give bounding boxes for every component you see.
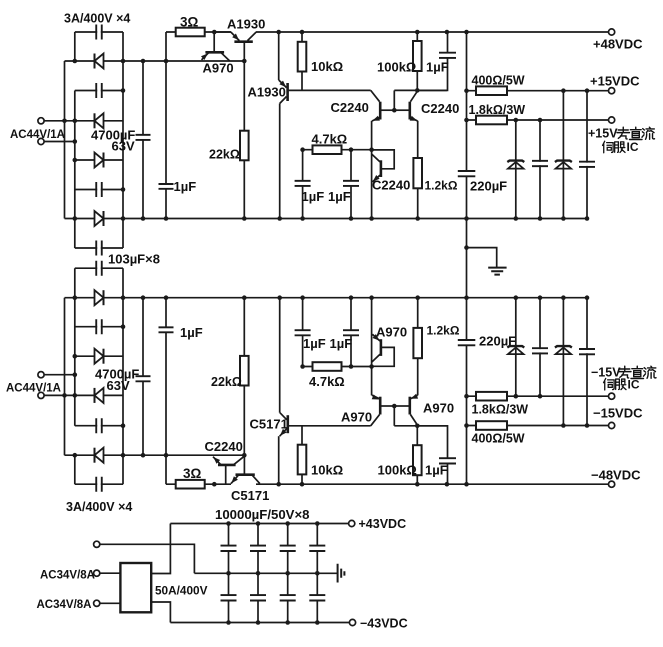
junction — [276, 30, 281, 35]
svg-text:63V: 63V — [112, 139, 135, 154]
wire base bus vertical (lower) — [393, 406, 395, 426]
junction (lower) — [464, 482, 469, 487]
junction — [121, 59, 126, 64]
wire AC34V b — [100, 602, 120, 604]
junction — [121, 88, 126, 93]
svg-text:C5171: C5171 — [250, 417, 288, 432]
wire diode row 4 (lower) — [65, 454, 245, 456]
junction (lower) — [300, 482, 305, 487]
junction — [538, 216, 543, 221]
svg-text:1µF: 1µF — [328, 189, 351, 204]
svg-text:+43VDC: +43VDC — [359, 517, 407, 531]
junction (lower) — [392, 404, 397, 409]
wire inter-rail link — [466, 219, 468, 298]
svg-text:220µF: 220µF — [479, 334, 516, 349]
wire zener-1 column — [515, 120, 517, 219]
svg-text:50A/400V: 50A/400V — [155, 584, 208, 598]
wire 1uF-b column — [350, 150, 352, 219]
capacitor C filter-2 — [579, 162, 595, 167]
svg-text:−48VDC: −48VDC — [591, 468, 641, 483]
wire AC input 1 (lower) — [44, 374, 75, 376]
transistor Q10 A970 (PNP pair left, lower) — [371, 395, 395, 426]
wire zener-2 column — [562, 91, 564, 219]
terminal -15VDC (lower) — [609, 422, 615, 428]
junction — [121, 187, 126, 192]
junction (lower) — [415, 295, 420, 300]
junction (lower) — [585, 423, 590, 428]
svg-text:4.7kΩ: 4.7kΩ — [309, 374, 345, 389]
junction ground tap — [464, 245, 469, 250]
wire emitter riser (lower) — [278, 436, 280, 484]
svg-text:C2240: C2240 — [205, 439, 243, 454]
junction (lower) — [276, 482, 281, 487]
resistor R 1.8k/3W (lower) — [476, 392, 507, 401]
junction (lower) — [73, 453, 78, 458]
capacitor C 220uF — [458, 171, 476, 176]
svg-text:IC: IC — [628, 378, 640, 392]
wire cap row 2 (lower) — [75, 326, 123, 328]
junction — [164, 216, 169, 221]
junction mid rail col2 — [256, 571, 261, 576]
svg-text:1.2kΩ: 1.2kΩ — [425, 179, 458, 193]
wire main mid rail (lower top rail) — [65, 297, 588, 299]
junction — [445, 30, 450, 35]
capacitor C 4700uF/63V (lower) — [136, 376, 151, 381]
wire 3-ohm row (lower) — [166, 483, 231, 485]
svg-text:10kΩ: 10kΩ — [311, 463, 343, 478]
svg-text:+15VDC: +15VDC — [590, 74, 640, 89]
svg-text:3A/400V ×4: 3A/400V ×4 — [64, 11, 130, 25]
wire 4700uF column — [142, 61, 144, 219]
junction — [538, 118, 543, 123]
junction — [585, 88, 590, 93]
junction (lower) — [164, 453, 169, 458]
wire cap row 1 (lower) — [75, 267, 123, 269]
terminal +43VDC — [349, 520, 355, 526]
wire +15V servo row — [467, 119, 609, 121]
junction (lower) — [561, 295, 566, 300]
wire diode row 3 — [75, 159, 123, 161]
junction — [392, 108, 397, 113]
wire right stack rail — [122, 32, 124, 248]
svg-text:63V: 63V — [107, 378, 130, 393]
junction — [141, 59, 146, 64]
wire base bus right segment — [394, 89, 447, 91]
svg-text:C5171: C5171 — [231, 488, 269, 503]
wire diode row 2 (lower) — [75, 355, 123, 357]
resistor R 100k (lower) — [413, 445, 422, 475]
svg-text:A1930: A1930 — [248, 85, 286, 100]
wire cap row 3 — [75, 189, 123, 191]
svg-text:−15V: −15V — [591, 366, 621, 380]
resistor R 4.7k — [313, 145, 342, 154]
capacitor C 10000uF bank bottom 1 — [221, 595, 237, 600]
wire 22k column (lower) — [243, 298, 245, 456]
junction top rail col3 — [285, 521, 290, 526]
junction — [561, 216, 566, 221]
junction (lower) — [349, 364, 354, 369]
junction — [464, 30, 469, 35]
wire zener-2 column (lower) — [562, 298, 564, 426]
svg-text:220µF: 220µF — [470, 179, 507, 194]
wire -15VDC row (lower) — [467, 425, 609, 427]
svg-text:A970: A970 — [203, 61, 234, 76]
wire 4.7k row (lower) — [303, 366, 372, 368]
capacitor C 1uF (stack) — [159, 184, 174, 189]
junction (lower) — [585, 295, 590, 300]
resistor R 400ohm/5W — [476, 86, 507, 95]
junction (lower) — [277, 295, 282, 300]
svg-text:1µF: 1µF — [174, 179, 197, 194]
junction top rail col2 — [256, 521, 261, 526]
junction — [369, 147, 374, 152]
wire emitter column (lower) — [371, 298, 373, 396]
svg-text:AC34V/8A: AC34V/8A — [37, 599, 92, 611]
wire filtercap-1 column — [539, 120, 541, 219]
wire 1.2k column — [417, 121, 419, 219]
svg-text:10000µF/50V×8: 10000µF/50V×8 — [215, 507, 310, 522]
svg-text:1µF: 1µF — [303, 336, 326, 351]
capacitor C 10000uF bank bottom 4 — [309, 595, 325, 600]
svg-text:C2240: C2240 — [372, 178, 410, 193]
junction (lower) — [73, 372, 78, 377]
svg-text:AC44V/1A: AC44V/1A — [6, 383, 61, 395]
zener diode D4 (-15V) — [555, 346, 572, 354]
junction (lower) — [464, 423, 469, 428]
label 伺 (lower) — [604, 378, 615, 390]
junction — [141, 216, 146, 221]
wire 10k column (lower) — [301, 426, 303, 484]
svg-text:3Ω: 3Ω — [183, 466, 202, 481]
capacitor C filter-3 — [532, 348, 548, 353]
junction (lower) — [349, 295, 354, 300]
junction (lower) — [62, 393, 67, 398]
transistor Q4 C2240 (NPN diff-pair left, upper) — [371, 90, 395, 121]
junction — [349, 147, 354, 152]
junction — [121, 216, 126, 221]
wire AC34V a — [100, 572, 120, 574]
junction — [73, 139, 78, 144]
junction — [561, 88, 566, 93]
capacitor C 1uF a (lower) — [295, 330, 311, 335]
junction — [212, 30, 217, 35]
junction mid rail col4 — [315, 571, 320, 576]
label 去 (upper) — [617, 127, 630, 139]
wire inner-left rail (top) — [74, 32, 76, 61]
wire 1.2k column (lower) — [417, 298, 419, 396]
junction — [300, 147, 305, 152]
transistor Q12 A970 (PNP, lower) — [372, 334, 395, 366]
svg-text:AC44V/1A: AC44V/1A — [10, 129, 65, 141]
zener diode D1 (+15V) — [507, 161, 524, 169]
wire inner-left rail main (lower) — [74, 268, 76, 426]
wire right rail lower part — [466, 298, 468, 485]
wire base bus (lower) — [288, 425, 371, 427]
terminal +15VDC — [609, 88, 615, 94]
wire diode row 2 with AC input — [44, 120, 123, 122]
capacitor C 1uF b (lower) — [343, 330, 359, 335]
resistor R 22k (lower) — [240, 356, 249, 386]
rectifier diode D row3 — [95, 153, 104, 168]
junction — [62, 119, 67, 124]
resistor R 3ohm (lower) — [176, 480, 205, 489]
wire cap row (bottom snubber) — [75, 483, 123, 485]
junction — [415, 88, 420, 93]
transistor Q7 C5171 (NPN pass, lower) — [231, 455, 260, 483]
svg-text:−15VDC: −15VDC — [593, 406, 643, 421]
svg-text:A970: A970 — [341, 410, 372, 425]
junction (lower) — [538, 394, 543, 399]
svg-text:1.2kΩ: 1.2kΩ — [427, 324, 460, 338]
terminal AC44V a — [38, 118, 44, 124]
junction bottom rail col3 — [285, 620, 290, 625]
junction mid rail col3 — [285, 571, 290, 576]
wire 22k column — [243, 61, 245, 219]
zener diode D3 (-15V) — [507, 346, 524, 354]
junction — [464, 88, 469, 93]
resistor R 100k — [413, 41, 422, 71]
wire top rail to +48VDC — [256, 31, 609, 33]
junction — [369, 216, 374, 221]
capacitor C 10000uF bank top 1 — [221, 546, 237, 551]
wire filtercap-2 column — [586, 91, 588, 219]
wire cap bank column 4 — [316, 524, 318, 623]
capacitor snubber row2 (lower) — [96, 319, 101, 334]
wire filtercap-1 column (lower) — [539, 298, 541, 397]
svg-text:3Ω: 3Ω — [180, 15, 199, 30]
capacitor C 10000uF bank bottom 3 — [280, 595, 296, 600]
label 服 (lower) — [616, 379, 626, 390]
junction (lower) — [121, 453, 126, 458]
transistor Q2 A970 (PNP, upper-left) — [201, 32, 230, 61]
capacitor C 220uF (lower) — [458, 340, 476, 345]
svg-text:400Ω/5W: 400Ω/5W — [472, 432, 525, 446]
svg-text:1µF: 1µF — [180, 325, 203, 340]
svg-text:103µF×8: 103µF×8 — [108, 252, 160, 267]
label 直 (upper) — [630, 127, 643, 139]
junction — [300, 216, 305, 221]
junction — [73, 216, 78, 221]
wire zener-1 column (lower) — [515, 298, 517, 397]
junction — [585, 216, 590, 221]
svg-text:1µF: 1µF — [425, 463, 448, 478]
wire bridge- drop — [151, 602, 170, 623]
resistor R 1.8k/3W — [476, 116, 507, 125]
wire cap bank column 3 — [287, 524, 289, 623]
transistor Q11 A970 (PNP pair right, lower) — [394, 394, 418, 426]
junction — [349, 216, 354, 221]
rectifier diode D row4 (lower) — [95, 448, 104, 463]
ground symbol (upper) — [488, 268, 506, 275]
svg-text:C2240: C2240 — [331, 100, 369, 115]
resistor R 10k — [298, 42, 307, 72]
wire diode row 1 — [65, 60, 245, 62]
wire filtercap-2 column (lower) — [586, 298, 588, 426]
svg-text:1.8kΩ/3W: 1.8kΩ/3W — [472, 403, 529, 417]
transistor Q6 C2240 (NPN, upper) — [372, 150, 395, 182]
junction — [514, 216, 519, 221]
wire 100k column — [416, 32, 418, 90]
wire center tap — [100, 544, 194, 573]
zener diode D2 (+15V) — [555, 161, 572, 169]
junction — [300, 30, 305, 35]
ground symbol (bottom) — [338, 564, 345, 583]
junction (lower) — [538, 295, 543, 300]
svg-text:1µF: 1µF — [426, 60, 449, 75]
rectifier diode D row2 — [95, 113, 104, 128]
junction (lower) — [369, 295, 374, 300]
transistor Q3 A1930 (PNP driver, upper) — [279, 80, 288, 104]
capacitor C 1uF a — [295, 181, 311, 186]
wire base bus right segment (lower) — [394, 425, 447, 427]
wire cap bank column 2 — [257, 524, 259, 623]
svg-text:AC34V/8A: AC34V/8A — [40, 570, 95, 582]
svg-text:IC: IC — [627, 140, 639, 154]
wire inner-left rail top (lower) — [74, 455, 76, 484]
label 服 (upper) — [615, 142, 625, 153]
rectifier diode D row3 (lower) — [95, 388, 104, 403]
terminal +48VDC — [609, 29, 615, 35]
resistor R 10k (lower) — [298, 445, 307, 475]
junction — [514, 118, 519, 123]
wire 0V mid rail — [194, 572, 337, 574]
junction (lower) — [464, 295, 469, 300]
svg-text:A970: A970 — [423, 401, 454, 416]
wire +15VDC row — [467, 90, 609, 92]
junction — [277, 216, 282, 221]
junction (lower) — [415, 424, 420, 429]
wire AC input 2 — [44, 141, 75, 143]
capacitor snubber row1 (lower) — [96, 261, 101, 276]
transistor Q9 C5171 (NPN driver, lower) — [280, 413, 288, 437]
wire 1uF-a column — [302, 150, 304, 219]
wire main mid rail — [65, 218, 588, 220]
wire 4.7k row — [303, 149, 372, 151]
capacitor C 10000uF bank top 2 — [250, 546, 266, 551]
capacitor C 10000uF bank top 3 — [280, 546, 296, 551]
capacitor C 1uF b — [343, 181, 359, 186]
wire inner-left rail (main) — [74, 91, 76, 249]
wire +43VDC rail — [170, 523, 348, 525]
wire 100k column (lower) — [416, 426, 418, 484]
capacitor C 10000uF bank top 4 — [309, 546, 325, 551]
junction (lower) — [242, 295, 247, 300]
wire bridge+ riser — [151, 524, 170, 574]
capacitor C 1uF (feedback, lower) — [439, 458, 456, 463]
junction — [464, 118, 469, 123]
wire cap bank column 1 — [228, 524, 230, 623]
junction (lower) — [242, 453, 247, 458]
capacitor snubber row4 — [96, 241, 101, 256]
junction (lower) — [464, 394, 469, 399]
terminal -48VDC (lower) — [609, 481, 615, 487]
label 去 (lower) — [619, 366, 632, 378]
capacitor snubber C (103uF) bottom — [96, 477, 101, 492]
svg-text:+48VDC: +48VDC — [593, 37, 643, 52]
label 流 (upper) — [642, 127, 655, 139]
capacitor C 4700uF/63V — [136, 135, 151, 140]
capacitor C 1uF (feedback) — [439, 53, 456, 58]
wire right stack rail (lower) — [122, 268, 124, 484]
wire base bus — [288, 89, 371, 91]
capacitor snubber row2 — [96, 83, 101, 98]
wire base bus vertical (upper) — [393, 90, 395, 110]
label 直 (lower) — [631, 366, 644, 378]
junction — [415, 216, 420, 221]
svg-text:400Ω/5W: 400Ω/5W — [472, 74, 525, 88]
capacitor snubber C (103uF) top — [96, 25, 101, 40]
svg-text:3A/400V ×4: 3A/400V ×4 — [66, 500, 132, 514]
junction bottom rail col1 — [226, 620, 231, 625]
wire 1uF feedback cap leads (lower) — [417, 426, 447, 484]
terminal AC34V b — [94, 600, 100, 606]
wire collector drop — [279, 104, 281, 219]
wire cap row 4 — [75, 247, 123, 249]
svg-text:22kΩ: 22kΩ — [209, 148, 240, 162]
rectifier diode D row2 (lower) — [95, 349, 104, 364]
svg-text:100kΩ: 100kΩ — [378, 463, 417, 478]
junction (lower) — [141, 453, 146, 458]
svg-text:A970: A970 — [376, 325, 407, 340]
svg-text:+15V: +15V — [588, 127, 618, 141]
junction (lower) — [300, 295, 305, 300]
terminal AC44V c (lower) — [38, 372, 44, 378]
wire diode row 3 with AC input (lower) — [44, 394, 123, 396]
junction (lower) — [369, 364, 374, 369]
junction (lower) — [121, 295, 126, 300]
wire 1uF column — [165, 32, 167, 219]
wire right rail upper part — [466, 32, 468, 219]
wire outer-left rail — [64, 61, 66, 219]
junction bottom rail col2 — [256, 620, 261, 625]
resistor R 4.7k (lower) — [313, 362, 342, 371]
terminal AC44V b — [38, 138, 44, 144]
svg-text:1µF: 1µF — [302, 189, 325, 204]
wire 4700uF column (lower) — [142, 298, 144, 456]
junction — [164, 59, 169, 64]
rectifier diode D row4 — [95, 211, 104, 226]
wire 1uF-b column (lower) — [350, 298, 352, 367]
svg-text:C2240: C2240 — [421, 101, 459, 116]
wire outer-left rail (lower) — [64, 298, 66, 456]
junction (lower) — [212, 482, 217, 487]
svg-text:100kΩ: 100kΩ — [377, 60, 416, 75]
wire ground tap — [467, 248, 497, 267]
junction — [415, 30, 420, 35]
svg-text:22kΩ: 22kΩ — [211, 375, 242, 389]
junction (lower) — [73, 354, 78, 359]
junction (lower) — [300, 364, 305, 369]
wire 1uF-a column (lower) — [302, 298, 304, 367]
junction top rail col4 — [315, 521, 320, 526]
junction — [242, 59, 247, 64]
junction (lower) — [73, 295, 78, 300]
junction — [73, 158, 78, 163]
svg-text:1µF: 1µF — [330, 336, 353, 351]
junction (lower) — [121, 423, 126, 428]
svg-text:4.7kΩ: 4.7kΩ — [312, 132, 348, 147]
capacitor C 1uF (stack, lower) — [159, 327, 174, 332]
wire -43VDC rail — [170, 622, 349, 624]
wire 10k column — [301, 32, 303, 90]
junction — [73, 59, 78, 64]
wire 1uF feedback cap leads — [417, 32, 447, 90]
rectifier diode D row1 (lower) — [95, 290, 104, 305]
svg-text:10kΩ: 10kΩ — [311, 59, 343, 74]
transistor Q8 C2240 (NPN, lower-left) — [213, 456, 245, 484]
wire collector rise (lower) — [279, 298, 281, 413]
terminal -15V servo (lower) — [609, 393, 615, 399]
